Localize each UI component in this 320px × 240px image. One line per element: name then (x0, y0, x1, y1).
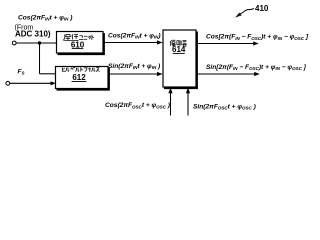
svg-text:610: 610 (71, 40, 85, 49)
svg-text:ADC 310): ADC 310) (15, 29, 51, 38)
svg-text:Cos(2πFINt + φIN): Cos(2πFINt + φIN) (108, 32, 161, 39)
svg-text:614: 614 (172, 45, 186, 54)
svg-text:410: 410 (255, 4, 269, 13)
svg-text:612: 612 (72, 73, 86, 82)
